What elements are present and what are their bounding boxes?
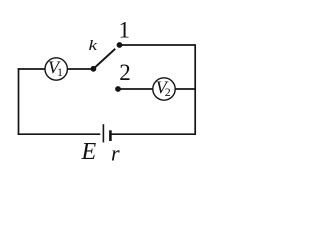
wire V2 to right vertical (175, 88, 196, 90)
wire bottom-left (18, 133, 101, 135)
battery short plate (109, 130, 112, 141)
node 2 (115, 86, 121, 92)
wire node2 to V2 (118, 88, 153, 90)
svg-text:r: r (111, 141, 120, 166)
wire right vertical (194, 44, 196, 135)
wire node1 to right (120, 44, 196, 46)
wire top-left horizontal (18, 68, 46, 70)
battery long plate (102, 124, 104, 142)
svg-text:E: E (81, 139, 97, 165)
svg-text:k: k (89, 38, 98, 54)
node 1 (117, 42, 123, 48)
switch k blade (93, 49, 115, 69)
svg-text:2: 2 (119, 60, 131, 85)
wire left vertical (18, 68, 20, 135)
wire bottom-right (112, 133, 197, 135)
svg-text:2: 2 (165, 85, 171, 99)
voltmeter V2 (153, 78, 175, 101)
svg-text:1: 1 (57, 65, 63, 79)
node switch pivot (91, 66, 97, 72)
voltmeter V1 (45, 58, 67, 81)
wire V1 to switch pivot (67, 68, 93, 70)
svg-text:1: 1 (119, 18, 131, 43)
